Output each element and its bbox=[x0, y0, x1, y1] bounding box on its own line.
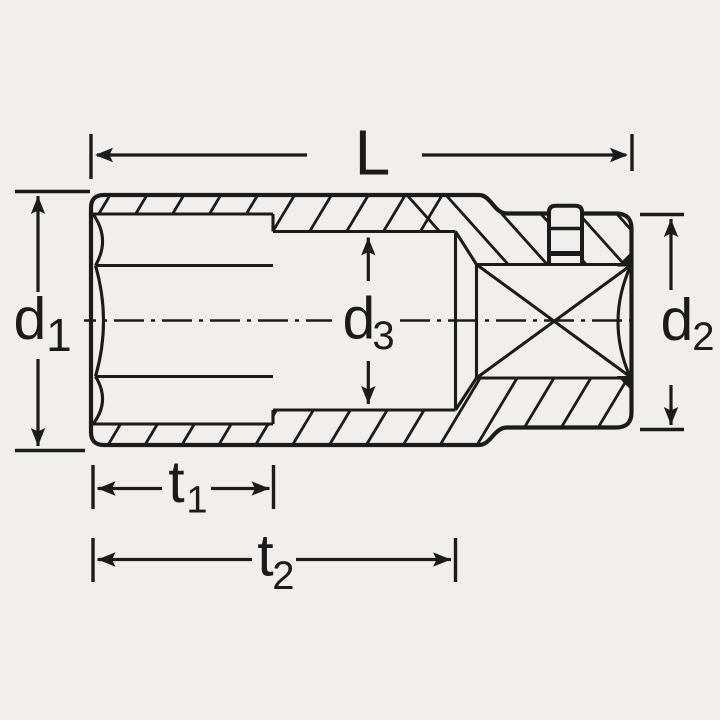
dimension d1 line upper segment bbox=[36, 196, 39, 292]
d3 cavity floor bbox=[273, 408, 456, 411]
d3 cavity ceiling bbox=[273, 230, 456, 233]
dimension d3 arrow down bbox=[361, 386, 375, 404]
dimension d1 extension line top bbox=[15, 190, 90, 193]
drive end back-hatching bbox=[406, 194, 665, 267]
dimension d1 line lower segment bbox=[36, 359, 39, 446]
dimension d2 arrow up bbox=[664, 219, 678, 237]
hex facet upper line bbox=[96, 264, 274, 267]
d3 cavity end wall bbox=[454, 232, 457, 411]
dimension t2 arrow left bbox=[98, 552, 116, 566]
dimension t2 extension line left bbox=[91, 538, 94, 582]
dimension d2 extension line top bbox=[640, 213, 684, 216]
svg-text:d: d bbox=[343, 286, 376, 352]
svg-text:d: d bbox=[661, 287, 694, 353]
square drive diagonal 1 bbox=[477, 265, 631, 378]
dimension t2 extension line right bbox=[454, 538, 457, 582]
corner ink wedge top right bbox=[617, 251, 632, 267]
dimension d3 line lower segment bbox=[367, 361, 370, 404]
centerline right part bbox=[400, 319, 640, 321]
section hatching bbox=[0, 185, 720, 450]
dimension d3 line upper segment bbox=[367, 238, 370, 282]
dimension t1 arrow left bbox=[98, 481, 116, 495]
hex to d3 step wall upper bbox=[271, 214, 274, 232]
svg-text:t: t bbox=[168, 449, 184, 515]
square drive top edge bbox=[477, 263, 631, 266]
square drive near edge bbox=[475, 265, 478, 379]
svg-text:1: 1 bbox=[46, 309, 72, 361]
dimension t1 extension line right bbox=[272, 465, 275, 509]
dimension L arrow right bbox=[610, 148, 628, 162]
dimension L extension line right bbox=[630, 134, 633, 171]
svg-text:2: 2 bbox=[272, 554, 294, 598]
corner ink wedge bottom right bbox=[617, 376, 632, 391]
square drive diagonal 2 bbox=[477, 266, 631, 379]
chamfer lower bbox=[456, 378, 477, 410]
centerline left part bbox=[84, 319, 332, 321]
dimension d3 arrow up bbox=[361, 238, 375, 256]
dimension t1 line right segment bbox=[211, 487, 270, 490]
svg-text:t: t bbox=[257, 523, 273, 589]
hex mouth arc middle bbox=[96, 266, 104, 377]
hex facet lower line bbox=[96, 375, 274, 378]
chamfer upper bbox=[456, 232, 477, 265]
square drive bottom edge bbox=[477, 376, 631, 379]
dimension d1 extension line bottom bbox=[15, 449, 85, 452]
dimension L line left segment bbox=[97, 153, 307, 156]
hex mouth arc upper bbox=[93, 214, 103, 266]
dimension t1 line left segment bbox=[98, 487, 163, 490]
hex cavity floor line bbox=[93, 422, 273, 425]
hex to d3 step wall lower bbox=[271, 410, 274, 424]
svg-text:L: L bbox=[355, 117, 391, 189]
dimension L arrow left bbox=[95, 148, 113, 162]
svg-text:3: 3 bbox=[372, 314, 394, 358]
dimension t2 line left segment bbox=[98, 558, 253, 561]
dimension L line right segment bbox=[422, 153, 626, 156]
svg-text:d: d bbox=[14, 286, 47, 352]
dimension d2 extension line bottom bbox=[640, 428, 684, 431]
dimension d1 arrow down bbox=[31, 428, 45, 446]
dimension t1 extension line left bbox=[91, 465, 94, 509]
dimension d2 arrow down bbox=[664, 407, 678, 425]
dimension d1 arrow up bbox=[31, 196, 45, 214]
socket body outer silhouette bbox=[91, 195, 632, 445]
dimension t2 arrow right bbox=[433, 552, 451, 566]
svg-text:2: 2 bbox=[692, 315, 714, 359]
hex mouth arc lower bbox=[93, 377, 103, 425]
hex cavity ceiling line bbox=[93, 212, 273, 215]
svg-text:1: 1 bbox=[186, 480, 207, 522]
dimension L extension line left bbox=[89, 134, 92, 179]
dimension d2 line upper segment bbox=[669, 219, 672, 290]
dimension d2 line lower segment bbox=[669, 385, 672, 425]
dimension t1 arrow right bbox=[252, 481, 270, 495]
square drive far face arc bbox=[618, 266, 631, 376]
detent ball pin bbox=[548, 206, 583, 265]
dimension t2 line right segment bbox=[296, 558, 451, 561]
